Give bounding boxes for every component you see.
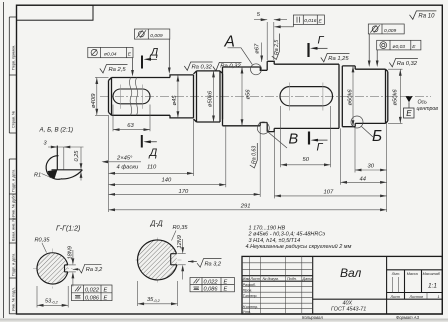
section mark D top	[142, 56, 157, 69]
svg-text:Разраб.: Разраб.	[243, 283, 256, 287]
collar d67	[267, 61, 274, 131]
shaft outline: section d40	[109, 61, 388, 131]
ext lines left chains	[108, 115, 110, 212]
section mark D bottom	[142, 135, 157, 148]
callout circle A	[251, 64, 262, 75]
svg-text:Ra 2,5: Ra 2,5	[274, 40, 280, 55]
tolerance frame: runout 0,04 E	[88, 47, 133, 57]
keyway 1 (left, d40)	[113, 89, 150, 104]
svg-text:Подп. и дата: Подп. и дата	[12, 169, 16, 192]
svg-text:Справ. №: Справ. №	[12, 111, 16, 128]
page bottom shadow	[0, 319, 448, 321]
svg-text:Г-Г(1:2): Г-Г(1:2)	[56, 226, 80, 233]
svg-text:30: 30	[368, 163, 375, 169]
svg-text:Листов: Листов	[409, 295, 424, 299]
dim 12N9	[177, 253, 185, 255]
section d50k6 right journal	[355, 69, 388, 123]
svg-text:Ra 0,32: Ra 0,32	[192, 65, 213, 71]
svg-text:Ra 1,25: Ra 1,25	[328, 56, 349, 62]
svg-text:40Х: 40Х	[343, 300, 353, 306]
keyway 2 (d60k6)	[280, 87, 333, 106]
tolerance frame: coaxiality 0,03 E	[377, 40, 421, 64]
svg-text:ø45: ø45	[172, 95, 178, 106]
title block thin grid	[242, 256, 427, 314]
dia 40l9	[95, 78, 109, 116]
dim 5 (collar)	[254, 20, 287, 60]
section d50k6	[194, 71, 223, 122]
svg-text:291: 291	[240, 203, 251, 209]
dim 18N9	[68, 264, 75, 266]
svg-text:R0,35: R0,35	[173, 225, 189, 231]
svg-text:Ra 10: Ra 10	[418, 14, 435, 20]
keyway notch D-D	[170, 254, 172, 265]
svg-text:Г: Г	[317, 142, 324, 154]
dia 56	[241, 67, 243, 126]
tolerance frames D-D	[190, 278, 234, 292]
svg-text:ø0,04: ø0,04	[104, 51, 117, 57]
title block texts	[243, 272, 441, 314]
tolerance frame: cylindricity 0,009 (left)	[134, 29, 169, 71]
svg-text:Инв. № подл.: Инв. № подл.	[12, 287, 16, 311]
top-left designation stamp box	[17, 5, 94, 20]
section d45	[170, 75, 194, 118]
svg-text:Г: Г	[318, 35, 325, 47]
dim 3	[48, 147, 84, 170]
left margin stamp column lines	[8, 17, 10, 133]
svg-text:Дата: Дата	[302, 277, 313, 281]
svg-text:ГОСТ 4543-71: ГОСТ 4543-71	[331, 307, 366, 313]
chamfer leader	[103, 161, 141, 163]
svg-text:0,086: 0,086	[204, 287, 219, 293]
tolerance frame: cylindricity 0,009 (right)	[368, 24, 404, 64]
sheet left edge line	[3, 2, 5, 318]
svg-text:63: 63	[127, 123, 134, 129]
roughness Ra 0,32 no.2	[213, 62, 242, 70]
svg-text:0,009: 0,009	[384, 28, 397, 34]
svg-text:12N9: 12N9	[177, 235, 183, 248]
roughness Ra 1,25	[321, 53, 350, 61]
title block outer	[242, 256, 442, 314]
svg-text:Масса: Масса	[407, 272, 418, 276]
svg-text:Формат А3: Формат А3	[396, 315, 420, 320]
svg-text:R0,35: R0,35	[35, 238, 51, 244]
section d56	[223, 67, 261, 126]
svg-text:Д: Д	[148, 147, 158, 159]
svg-text:Н.контр.: Н.контр.	[243, 305, 259, 309]
dia 67	[261, 43, 263, 63]
section mark G top	[309, 43, 328, 57]
roughness Ra 2,5 left	[100, 65, 128, 73]
svg-text:Б: Б	[372, 128, 382, 145]
svg-text:№ докум.: № докум.	[263, 277, 279, 281]
dia 45	[177, 75, 179, 118]
svg-text:А, Б, В (2:1): А, Б, В (2:1)	[39, 127, 74, 134]
svg-text:1:1: 1:1	[428, 282, 437, 289]
svg-text:110: 110	[147, 164, 157, 170]
svg-text:0,25: 0,25	[74, 150, 80, 162]
dim lines	[113, 129, 150, 131]
section mark G bottom	[309, 132, 328, 145]
tolerance frames G-G	[72, 285, 113, 301]
dia 60k6	[352, 66, 354, 127]
svg-text:1 170...190 НВ: 1 170...190 НВ	[249, 225, 286, 231]
svg-text:E: E	[104, 295, 108, 301]
Ra 3,2 flag G-G	[73, 264, 102, 273]
callout circle V	[257, 122, 269, 134]
dim 35-0,2	[138, 281, 178, 306]
svg-text:Утв.: Утв.	[243, 310, 251, 314]
svg-text:ø50k6: ø50k6	[393, 89, 399, 106]
svg-text:E: E	[104, 288, 108, 294]
dim 0,25	[80, 147, 82, 164]
roughness Ra 0,32 no.1	[184, 62, 212, 70]
rotated Ra 0,63 at groove V	[250, 143, 257, 168]
section D-D circle	[136, 238, 182, 283]
svg-text:3 Н14, h14, ±0,5IT14: 3 Н14, h14, ±0,5IT14	[249, 238, 301, 244]
svg-text:ø67: ø67	[254, 43, 260, 54]
svg-text:ø40l9: ø40l9	[91, 93, 97, 108]
svg-text:2 ø45к6 - h0,3-0,4; 45-48HRCэ: 2 ø45к6 - h0,3-0,4; 45-48HRCэ	[248, 232, 326, 238]
svg-text:Изм: Изм	[243, 277, 250, 281]
svg-text:Д-Д: Д-Д	[150, 221, 163, 228]
groove profile detail	[46, 146, 82, 180]
svg-text:Ось: Ось	[418, 100, 428, 106]
svg-text:Ra 3,2: Ra 3,2	[86, 267, 103, 273]
svg-text:E: E	[406, 109, 412, 118]
datum E on centers axis	[406, 96, 413, 102]
svg-text:44: 44	[360, 176, 366, 182]
svg-text:Д: Д	[149, 47, 159, 59]
svg-text:Ra 3,2: Ra 3,2	[205, 261, 222, 267]
svg-text:ø56: ø56	[246, 89, 252, 100]
svg-text:2×45°: 2×45°	[116, 156, 133, 162]
svg-text:0,022: 0,022	[204, 280, 219, 286]
svg-text:R1: R1	[34, 172, 41, 178]
svg-text:E: E	[224, 287, 228, 293]
svg-text:107: 107	[324, 189, 334, 195]
svg-text:0,022: 0,022	[85, 288, 100, 294]
section G-G circle	[33, 249, 73, 289]
title block internal thick lines	[242, 256, 442, 314]
svg-text:0,009: 0,009	[150, 33, 163, 39]
svg-text:Перв. примен.: Перв. примен.	[12, 45, 16, 70]
keyway notch G-G	[64, 265, 66, 272]
svg-text:Пров.: Пров.	[243, 289, 253, 293]
arrowheads for chains	[102, 128, 387, 211]
svg-text:ø60k6: ø60k6	[347, 89, 353, 106]
svg-text:Лист: Лист	[249, 277, 260, 281]
svg-text:Ra 0,32: Ra 0,32	[397, 61, 418, 67]
svg-text:Лист: Лист	[390, 295, 401, 299]
svg-text:140: 140	[162, 177, 172, 183]
svg-text:50: 50	[303, 157, 310, 163]
svg-text:Ra 2,5: Ra 2,5	[109, 67, 127, 73]
dia 50k6 right	[388, 69, 403, 123]
svg-text:Вал: Вал	[340, 266, 362, 280]
svg-text:0,086: 0,086	[85, 295, 100, 301]
tolerance frame: 0,016 E (top middle)	[275, 15, 325, 27]
groove B (after d60k6)	[342, 66, 355, 127]
roughness Ra 10 corner	[410, 11, 437, 19]
svg-text:В: В	[289, 132, 299, 148]
svg-text:4 фаски: 4 фаски	[117, 165, 140, 171]
svg-text:Т.контр.: Т.контр.	[243, 294, 258, 298]
svg-text:1: 1	[438, 295, 440, 299]
dia 50k6 left	[213, 71, 215, 122]
main centerline	[100, 95, 431, 97]
svg-text:Ra 0,32: Ra 0,32	[220, 63, 241, 69]
svg-text:ø0,03: ø0,03	[393, 44, 406, 50]
svg-text:Подп.: Подп.	[287, 277, 297, 281]
svg-text:0,016: 0,016	[304, 18, 317, 24]
svg-text:ø50k6: ø50k6	[208, 90, 214, 107]
rotated Ra 2,5 at collar	[272, 34, 280, 60]
svg-text:Ra 0,63: Ra 0,63	[252, 146, 258, 164]
svg-text:4.Неуказанные радиусы скруглен: 4.Неуказанные радиусы скруглений 2 мм	[246, 243, 352, 250]
svg-text:Лит.: Лит.	[391, 272, 401, 276]
callout circle B	[351, 116, 363, 128]
break (wavy) lines on left section	[129, 78, 131, 116]
svg-text:Масштаб: Масштаб	[423, 272, 441, 276]
svg-text:центров: центров	[417, 106, 439, 112]
svg-text:Копировал: Копировал	[302, 315, 323, 320]
svg-text:170: 170	[179, 189, 189, 195]
roughness Ra 0,32 right journal	[389, 58, 418, 66]
svg-text:Инв. № дубл.: Инв. № дубл.	[12, 193, 16, 217]
groove A/V (before collar)	[260, 61, 267, 131]
section d60k6	[274, 64, 342, 128]
svg-text:Взам. инв. №: Взам. инв. №	[12, 217, 16, 241]
svg-text:18N9: 18N9	[68, 246, 74, 259]
Ra 3,2 flag D-D	[188, 259, 222, 268]
svg-text:Подп. и дата: Подп. и дата	[12, 253, 16, 276]
svg-text:E: E	[224, 280, 228, 286]
dim 53-0,2	[37, 286, 68, 308]
